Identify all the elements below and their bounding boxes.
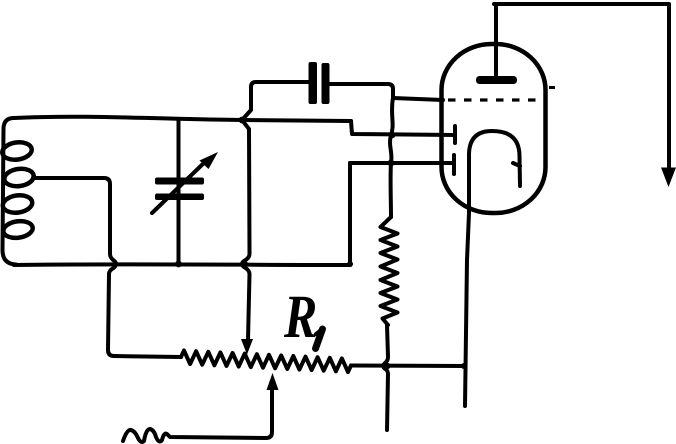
svg-text:R: R (283, 283, 317, 351)
